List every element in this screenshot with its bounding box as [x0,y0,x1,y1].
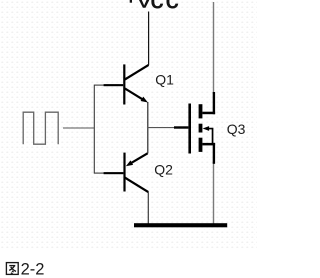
wire right rail lower (Q3 source to ground) [213,162,215,224]
svg-text:Q2: Q2 [154,162,173,178]
transistor Q1 (NPN) [104,64,149,104]
svg-text:c: c [151,0,164,14]
Q3 drain lead [202,112,215,115]
Q3 channel top segment [199,104,203,118]
MOSFET Q3 (N-channel) [174,92,215,164]
caption 图2-2 [6,260,44,278]
square wave input source [23,112,58,144]
wire right rail upper (Vcc to Q3 drain) [213,2,215,94]
Q3 drain pin up [213,92,215,114]
wire Vcc to Q1 collector [148,12,150,65]
ground bus bar [134,223,227,227]
Q1 emitter lead [125,88,144,100]
Q1 collector lead [125,65,149,80]
wire Q2 collector to ground [147,192,149,223]
wire emitters junction (Q1 emitter to Q2 emitter) [147,102,149,153]
svg-text:c: c [166,0,179,14]
svg-text:Q3: Q3 [227,121,246,137]
Q3 source pin down [213,143,215,164]
wire base vertical [93,85,95,174]
Q2 collector lead [125,178,148,193]
Q2 emitter arrow (points into bar) [126,160,133,166]
Q2 emitter lead [132,153,148,163]
Q1 base bar [123,64,125,104]
Q1 base lead [104,84,124,86]
hanzi 图 drawn as paths [6,263,18,275]
wire to Q2 base [94,172,104,174]
Q3 channel bottom segment [199,138,203,152]
Q3 gate lead [174,126,188,128]
wire input to bases [63,127,95,129]
Q2 base lead [104,172,124,174]
Q3 source lead [202,143,215,146]
Q3 body arrow tail [206,128,214,144]
Q1 emitter arrow [141,97,148,103]
Q3 body arrow head [203,126,210,131]
Q3 gate bar [188,104,191,154]
transistor Q2 (PNP) [104,153,149,193]
wire to Q1 base [94,84,104,86]
Q2 base bar [123,153,125,192]
wire junction to Q3 gate [148,127,175,129]
Q3 channel middle segment [199,124,203,133]
svg-text:2-2: 2-2 [21,260,45,278]
svg-text:Q1: Q1 [155,71,174,87]
label +Vcc (clipped at top edge: plus stub, V point, c bottoms) [130,0,179,14]
